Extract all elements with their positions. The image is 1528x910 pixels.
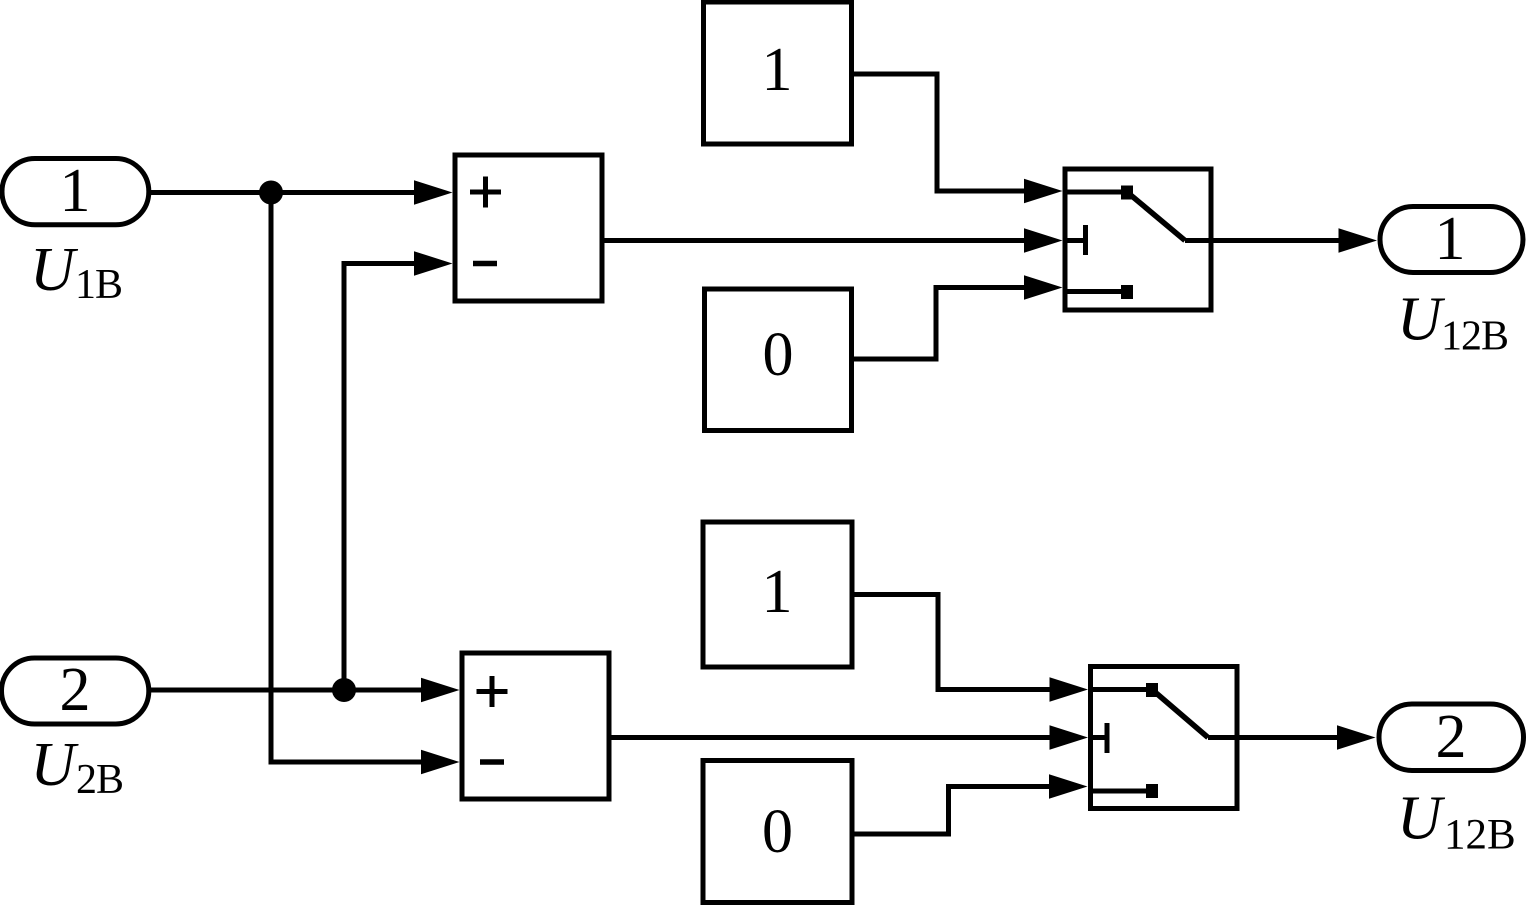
Switch1 lever xyxy=(1127,192,1185,241)
wire input2 junction up to Sum1 minus xyxy=(344,264,418,691)
wire Switch2 to outport 2 xyxy=(1237,735,1340,740)
svg-text:12B: 12B xyxy=(1444,812,1516,859)
svg-text:U: U xyxy=(1397,286,1446,354)
svg-text:U: U xyxy=(31,731,80,799)
svg-text:1: 1 xyxy=(762,36,793,104)
node label U12B (top) xyxy=(1397,286,1508,360)
svg-text:U: U xyxy=(1397,785,1446,853)
wire Sum2 output to Switch2 middle input xyxy=(609,735,1053,740)
svg-text:2B: 2B xyxy=(76,757,123,803)
wire input1 junction down to Sum2 minus xyxy=(271,193,424,763)
Switch1 top contact line xyxy=(1065,190,1127,195)
svg-text:0: 0 xyxy=(762,798,793,866)
Switch2 top contact line xyxy=(1091,687,1153,692)
Switch2 bottom contact line xyxy=(1091,789,1153,794)
wire Switch1 to outport 1 xyxy=(1211,238,1342,243)
Switch1 output line xyxy=(1185,238,1211,243)
Switch2 lever xyxy=(1152,690,1208,738)
outport 2 xyxy=(1379,704,1524,771)
constant block value 0 (bottom) xyxy=(703,761,852,903)
Sum1 plus sign xyxy=(470,177,501,208)
svg-text:2: 2 xyxy=(1436,703,1467,771)
switch block Switch1 xyxy=(1065,169,1211,310)
wire constant1 to Switch2 top input xyxy=(852,595,1053,690)
inport 2 xyxy=(2,658,149,724)
svg-text:1: 1 xyxy=(762,558,793,626)
node label U1B xyxy=(30,236,122,308)
inport 1 xyxy=(2,159,149,225)
Sum2 minus sign xyxy=(480,759,504,765)
junction node on input1 wire xyxy=(259,181,283,205)
wire constant1 to Switch1 top input xyxy=(852,74,1029,191)
svg-text:U: U xyxy=(30,236,79,304)
sum block Sum1 xyxy=(455,155,602,301)
node label U2B xyxy=(31,731,124,803)
wire input1 to Sum1 plus xyxy=(150,190,420,195)
outport 1 xyxy=(1380,207,1523,273)
svg-text:2: 2 xyxy=(60,656,91,724)
Sum1 minus sign xyxy=(473,261,497,267)
Switch2 control stub xyxy=(1091,735,1108,740)
sum block Sum2 xyxy=(462,653,609,799)
svg-text:0: 0 xyxy=(763,321,794,389)
svg-text:1: 1 xyxy=(60,157,91,225)
constant block value 1 (top) xyxy=(704,2,852,144)
switch block Switch2 xyxy=(1091,667,1238,809)
svg-text:1: 1 xyxy=(1435,205,1466,273)
constant block value 0 (top) xyxy=(705,289,852,431)
node label U12B (bottom) xyxy=(1397,785,1516,859)
Sum2 plus sign xyxy=(477,676,508,707)
Switch2 output line xyxy=(1208,735,1237,740)
svg-text:12B: 12B xyxy=(1441,314,1508,360)
wire constant0 to Switch2 bottom input xyxy=(852,787,1053,835)
wire constant0 to Switch1 bottom input xyxy=(852,288,1029,360)
svg-text:1B: 1B xyxy=(75,262,122,308)
wire input2 to Sum2 plus xyxy=(147,688,424,693)
Switch1 control stub xyxy=(1065,238,1085,243)
Switch1 bottom contact line xyxy=(1065,289,1127,294)
junction node on input2 wire xyxy=(332,678,356,702)
constant block value 1 (bottom) xyxy=(703,522,852,667)
wire Sum1 output to Switch1 middle input xyxy=(602,238,1028,243)
